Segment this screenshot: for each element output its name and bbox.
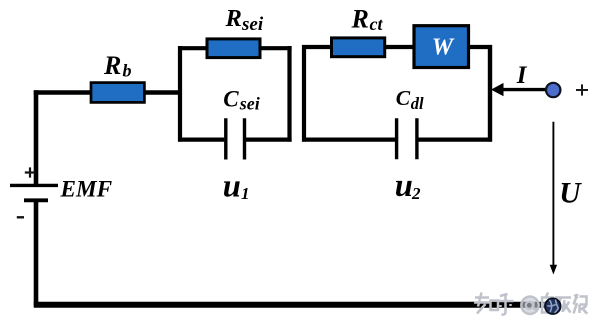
svg-text:W: W: [432, 35, 455, 61]
plus sign at positive terminal: [576, 84, 588, 95]
svg-text:2: 2: [411, 184, 421, 203]
wire: bottom rail to output terminal: [34, 302, 546, 308]
watermark char 2: [497, 294, 514, 315]
svg-text:sei: sei: [239, 94, 260, 114]
battery - polarity mark: [17, 216, 24, 218]
watermark char 3: [542, 293, 553, 313]
wire: R_b to RC group 1: [144, 90, 180, 94]
RC group 1: bottom edge wire segments to capacitor plates: [178, 138, 292, 142]
capacitor C_sei plates: [226, 118, 245, 159]
capacitor C_dl plates: [397, 118, 417, 159]
svg-text:ct: ct: [370, 14, 384, 34]
svg-text:b: b: [123, 61, 132, 81]
RC group 2: bottom edge wire segments to capacitor plates: [302, 138, 492, 142]
terminal node bottom (negative): [545, 298, 561, 314]
RC group 2: top edge wire segments around R_ct and W: [302, 45, 492, 49]
RC group 1: left edge wire: [178, 46, 182, 142]
voltage arrow U head: [550, 265, 557, 275]
svg-text:u: u: [395, 168, 413, 204]
svg-text:C: C: [223, 87, 239, 112]
battery V1 positive plate (long): [10, 184, 58, 187]
watermark at-sign: [521, 297, 538, 314]
resistor R_b: [91, 83, 144, 103]
Warburg impedance W box: [414, 26, 469, 68]
watermark: zhihu user text (stylised gray strokes): [474, 293, 588, 315]
svg-text:1: 1: [241, 184, 250, 203]
resistor R_ct: [332, 38, 385, 57]
battery + polarity mark: [25, 167, 35, 177]
resistor R_sei: [207, 39, 260, 58]
svg-text:u: u: [223, 169, 241, 205]
wire: left vertical from battery negative plate down to bottom rail: [34, 200, 39, 306]
battery V1 negative plate (short): [24, 198, 48, 202]
wire: left vertical from top corner down to battery positive plate: [34, 90, 39, 184]
watermark char 5: [574, 294, 588, 314]
svg-text:sei: sei: [241, 14, 264, 35]
svg-text:dl: dl: [411, 94, 424, 113]
svg-text:EMF: EMF: [60, 177, 113, 203]
watermark char 4: [555, 298, 571, 314]
RC group 2: right edge wire: [488, 45, 492, 142]
wire: top-left horizontal from left branch corner to R_b: [34, 90, 91, 94]
svg-text:U: U: [559, 178, 582, 210]
terminal node bottom swirl highlight: [547, 300, 558, 313]
current arrow I shaft: [502, 88, 547, 91]
svg-text:R: R: [225, 5, 242, 32]
RC group 1: right edge wire: [287, 46, 291, 142]
terminal node top (positive): [546, 83, 560, 97]
RC group 1: top edge wire segments around R_sei: [178, 46, 292, 50]
svg-text:R: R: [103, 51, 121, 80]
current arrow I head: [491, 83, 504, 96]
svg-text:C: C: [396, 86, 411, 110]
svg-text:I: I: [516, 62, 528, 89]
watermark char 1: [474, 293, 490, 314]
RC group 2: left edge wire: [302, 45, 306, 142]
voltage arrow U shaft: [552, 122, 554, 266]
svg-text:R: R: [351, 4, 369, 33]
